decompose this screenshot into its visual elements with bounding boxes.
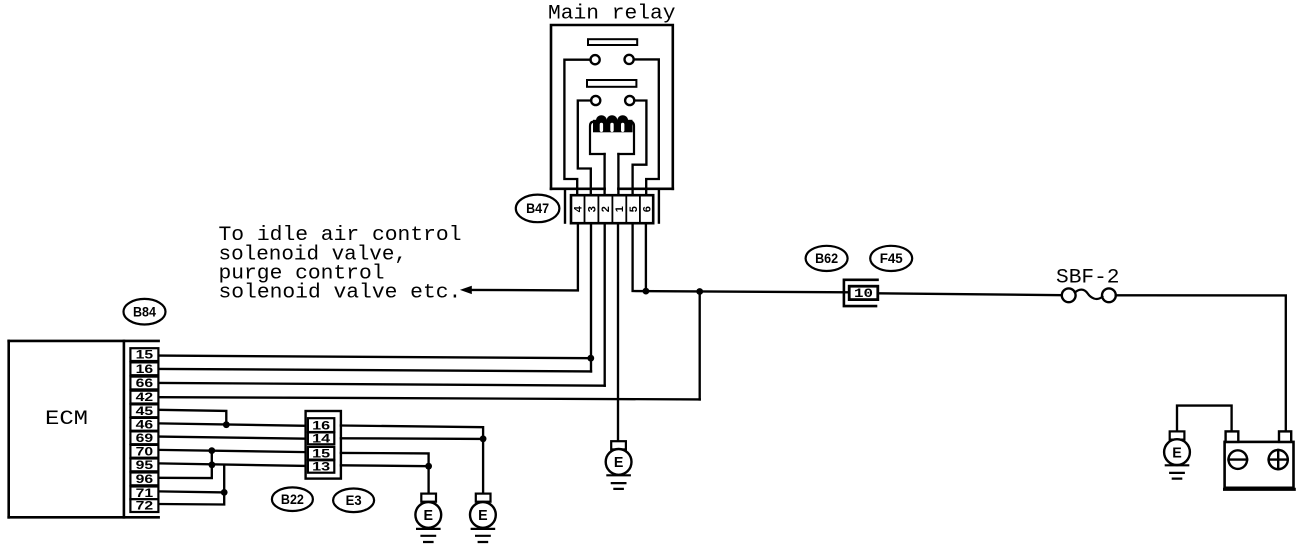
- junction ECM42 branch on main feed: [696, 288, 703, 295]
- svg-text:E: E: [1172, 445, 1182, 461]
- wire relay pin 5 to main feed: [633, 223, 850, 292]
- wire ECM 72: [159, 465, 224, 505]
- note text to idle air control: [219, 224, 462, 304]
- wire tie 70-95-96: [159, 450, 212, 478]
- ECM pin 45: [130, 404, 158, 418]
- connector label B84: [124, 299, 166, 325]
- relay contact bar 2: [587, 80, 636, 87]
- connector label B47: [516, 195, 560, 223]
- relay coil loop band: [593, 115, 633, 132]
- wire ECM42 branch vertical: [699, 292, 701, 400]
- svg-text:45: 45: [136, 406, 154, 418]
- svg-text:E: E: [478, 508, 488, 524]
- ECM pin 95: [130, 459, 158, 473]
- ECM pin 42: [130, 391, 158, 405]
- svg-text:66: 66: [136, 378, 154, 390]
- ECM pin 72: [130, 499, 158, 513]
- relay U1 outer case: [551, 25, 673, 189]
- connector pin 14: [308, 432, 334, 445]
- svg-text:96: 96: [136, 474, 154, 486]
- svg-text:B47: B47: [526, 201, 549, 216]
- svg-text:5: 5: [628, 206, 640, 212]
- relay connector housing left wall: [564, 190, 566, 223]
- relay contact point 1a: [591, 55, 600, 64]
- svg-text:72: 72: [136, 501, 154, 513]
- svg-text:E: E: [424, 508, 434, 524]
- svg-text:E3: E3: [346, 493, 362, 508]
- svg-text:95: 95: [136, 460, 154, 472]
- junction ECM15 on relay pin3 wire: [587, 355, 594, 362]
- svg-text:1: 1: [614, 206, 626, 212]
- fuse 10 holder bracket: [844, 280, 878, 306]
- ECM pin 69: [130, 431, 158, 445]
- wire relay pin 1 to ground: [617, 223, 619, 441]
- wire ECM 46 to connector pin 16: [159, 423, 306, 425]
- ground E2: [470, 494, 496, 542]
- svg-text:B62: B62: [815, 251, 838, 266]
- junction ECM45/46: [223, 421, 230, 428]
- svg-text:3: 3: [586, 206, 598, 212]
- svg-text:46: 46: [136, 419, 154, 431]
- arrowhead to solenoid valves: [460, 286, 472, 294]
- svg-text:6: 6: [641, 206, 653, 212]
- svg-text:42: 42: [136, 392, 154, 404]
- svg-text:13: 13: [312, 462, 330, 474]
- wire relay pin 3 vertical: [590, 223, 592, 371]
- wire relay contact 2a to pin 3: [578, 101, 591, 197]
- svg-text:16: 16: [312, 421, 330, 433]
- fuse 10: [849, 286, 878, 299]
- wire relay contact 1b to pin 6: [634, 59, 659, 196]
- svg-text:2: 2: [600, 206, 612, 212]
- svg-text:10: 10: [854, 286, 873, 301]
- junction pin6 on main feed: [643, 288, 650, 295]
- wire ECM 66 to relay pin 2: [159, 383, 605, 386]
- battery BAT: [1225, 431, 1295, 489]
- connector B22/E3 outer case: [306, 411, 341, 479]
- svg-text:E: E: [614, 455, 624, 471]
- ECM pin 70: [130, 445, 158, 459]
- svg-text:Main relay: Main relay: [548, 3, 676, 26]
- ECM pin 66: [130, 377, 158, 391]
- wire relay contact 1a to pin 4: [564, 60, 590, 196]
- wire battery negative to ground: [1177, 406, 1232, 432]
- svg-text:B22: B22: [281, 492, 304, 507]
- ground E battery: [1164, 431, 1190, 478]
- relay coil loop slots: [600, 123, 603, 132]
- svg-text:4: 4: [573, 205, 585, 212]
- wire SBF-2 to battery: [1116, 295, 1286, 431]
- wire relay contact 2b to pin 5: [633, 101, 647, 197]
- svg-text:16: 16: [136, 364, 154, 376]
- connector pin 15: [308, 447, 334, 461]
- wire coil right leg to pin 1: [617, 154, 619, 196]
- wire ECM 69 to connector pin 14: [159, 437, 306, 439]
- wire ECM 15 to relay pin 3: [159, 356, 591, 359]
- fusible link SBF-2: [1062, 288, 1116, 302]
- wire ECM 70 to connector pin 15: [159, 450, 306, 452]
- wire to ground E1: [427, 466, 429, 493]
- svg-text:SBF-2: SBF-2: [1056, 266, 1120, 289]
- svg-text:solenoid valve etc.: solenoid valve etc.: [219, 282, 462, 305]
- wire ECM 16 to relay pin 3: [159, 369, 591, 372]
- wire relay pin 6: [645, 223, 647, 291]
- battery negative terminal symbol: [1229, 450, 1248, 469]
- wire ECM 95 to connector pin 13: [159, 463, 306, 466]
- ECM pin 71: [130, 487, 158, 501]
- svg-text:F45: F45: [880, 251, 903, 266]
- wire ECM 45: [159, 410, 226, 425]
- svg-text:15: 15: [136, 350, 154, 362]
- wire connector 13 out: [341, 464, 429, 467]
- relay contact point 2b: [625, 96, 634, 105]
- wire coil left leg to pin 2: [603, 154, 605, 196]
- wire connector 16 out to ground: [341, 426, 483, 439]
- wire fuse to SBF-2: [878, 293, 1062, 295]
- ECM pin 96: [130, 473, 158, 487]
- svg-text:B84: B84: [133, 304, 156, 319]
- ECM box: [9, 341, 159, 517]
- svg-text:70: 70: [136, 446, 154, 458]
- relay contact point 2a: [591, 96, 600, 105]
- svg-text:15: 15: [312, 449, 331, 461]
- junction on ECM 71 wire: [221, 489, 228, 496]
- wire relay pin 2 vertical: [604, 223, 606, 386]
- connector label F45: [870, 246, 912, 271]
- junction on ECM 70 wire: [208, 447, 215, 454]
- junction 13/15 ground: [425, 463, 432, 470]
- junction 14/16 ground: [480, 435, 487, 442]
- svg-text:69: 69: [136, 433, 154, 445]
- connector label E3: [333, 489, 374, 513]
- ECM pin 16: [130, 362, 158, 376]
- wire ECM 42 to main feed: [159, 397, 700, 399]
- wire ECM 71: [159, 491, 224, 492]
- wire relay pin 4 to solenoid valves: [466, 223, 578, 290]
- relay contact bar 1: [588, 39, 637, 45]
- svg-text:14: 14: [312, 434, 331, 446]
- relay connector housing right wall: [658, 190, 660, 223]
- battery positive terminal symbol: [1269, 450, 1288, 469]
- ground E relay: [606, 441, 632, 489]
- wire connector 14 out: [341, 437, 483, 440]
- connector pin 13: [308, 460, 334, 473]
- wire to ground E2: [482, 439, 484, 494]
- ECM pin 46: [130, 418, 158, 432]
- relay coil L1 body: [590, 122, 634, 155]
- connector label B22: [272, 487, 313, 511]
- connector pin 16: [308, 418, 334, 432]
- junction on ECM 95 wire: [209, 461, 216, 468]
- ECM pin 15: [130, 348, 158, 362]
- wire connector 15 out to ground: [341, 453, 429, 466]
- svg-text:ECM: ECM: [45, 408, 88, 431]
- relay contact point 1b: [625, 55, 634, 64]
- ground E1: [415, 494, 441, 542]
- connector B47 strip: [571, 195, 653, 223]
- connector label B62: [806, 246, 848, 271]
